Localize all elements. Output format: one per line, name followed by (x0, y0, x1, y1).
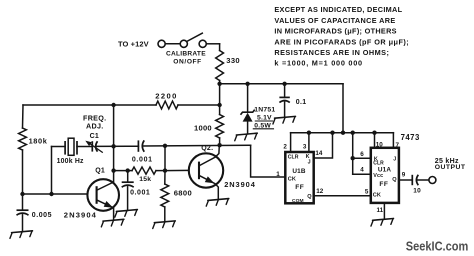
label 6800 (174, 189, 193, 198)
capacitor 0.001 (series) (138, 140, 144, 151)
pin label 3 (303, 144, 307, 151)
switch S1 terminal 1 (158, 40, 165, 47)
wire (51, 147, 53, 195)
svg-text:COM: COM (292, 198, 304, 204)
label 1N751 5.1V 0.5W (253, 106, 275, 129)
svg-text:9: 9 (402, 171, 406, 178)
transistor Q1 2N3904 (87, 179, 119, 211)
pin label 7 (396, 142, 400, 149)
wire pin 1 (CK) (251, 145, 286, 177)
wire pin 14 (314, 133, 333, 158)
node (163, 144, 167, 148)
label 0.001 (130, 190, 150, 197)
node (217, 103, 221, 107)
wire (219, 138, 221, 145)
wire (22, 150, 24, 194)
switch S1 blade (187, 33, 202, 41)
wire (165, 43, 180, 45)
svg-text:0.001: 0.001 (130, 190, 150, 197)
svg-text:4: 4 (360, 167, 364, 174)
label 10 (413, 188, 421, 195)
wire IC supply bus (291, 132, 394, 134)
node (341, 131, 345, 135)
node (111, 103, 115, 107)
wire (164, 207, 166, 222)
capacitor 0.001 (shunt) (122, 182, 134, 187)
label TO +12V (118, 39, 149, 48)
wire (22, 194, 24, 210)
switch S1 terminal 2 (180, 40, 187, 47)
switch S1 terminal 3 (199, 40, 206, 47)
svg-text:0.001: 0.001 (132, 156, 153, 163)
ground (9, 231, 33, 239)
capacitor C1 (variable) (85, 141, 103, 153)
svg-text:IN MICROFARADS (μF); OTHERS: IN MICROFARADS (μF); OTHERS (274, 27, 396, 36)
node (49, 192, 53, 196)
wire (52, 146, 66, 148)
wire (164, 171, 166, 184)
label C1 (90, 133, 99, 140)
op-amp U1B box (285, 152, 313, 204)
pin label 11 (377, 207, 384, 214)
wire (22, 215, 24, 232)
wire pin 7 (392, 133, 394, 148)
ground (101, 219, 125, 227)
wire (128, 170, 132, 172)
watermark SeekIC.com (406, 239, 469, 254)
wire Q2 base (165, 169, 189, 171)
svg-text:RESISTANCES ARE IN OHMS;: RESISTANCES ARE IN OHMS; (274, 48, 389, 57)
wire (417, 179, 428, 181)
svg-text:SeekIC.com: SeekIC.com (406, 239, 469, 254)
svg-text:1N751: 1N751 (254, 106, 275, 113)
wire pin 10 (374, 133, 376, 148)
node (126, 168, 130, 172)
label 0.1 (296, 99, 307, 106)
wire (127, 171, 129, 183)
pin label 1 (276, 171, 280, 178)
pin label 10 (376, 142, 384, 149)
wire pin 3 (308, 133, 310, 152)
node (163, 168, 167, 172)
svg-text:CK: CK (288, 177, 296, 183)
wire pin 2 (290, 133, 292, 152)
wire (156, 170, 165, 172)
wire pin 6 (353, 157, 371, 159)
label 100k Hz (57, 158, 84, 165)
node (111, 168, 115, 172)
label Q1 (95, 168, 105, 175)
node (20, 192, 24, 196)
svg-text:k =1000, M=1 000 000: k =1000, M=1 000 000 (274, 59, 362, 68)
svg-text:15k: 15k (139, 176, 151, 183)
label 180k (29, 137, 48, 146)
svg-text:OUTPUT: OUTPUT (435, 164, 466, 171)
svg-text:ADJ.: ADJ. (86, 122, 104, 131)
op-amp U1A box (371, 148, 399, 203)
label 25 kHz OUTPUT (435, 158, 466, 171)
wire (284, 102, 286, 117)
resistor 330 (216, 51, 224, 81)
wire (114, 170, 128, 172)
wire (113, 208, 115, 220)
label 0.001 (132, 156, 153, 163)
label 0.005 (32, 212, 52, 219)
pin label 4 (360, 167, 364, 174)
capacitor 0.1 (279, 97, 289, 102)
svg-text:12: 12 (316, 188, 324, 195)
label 2N3904 (Q2) (224, 180, 256, 189)
note text block (274, 5, 409, 67)
label 330 (226, 56, 240, 65)
ground (234, 133, 258, 141)
wire pin 9 output (399, 179, 412, 181)
svg-text:2200: 2200 (155, 92, 178, 101)
svg-text:Q: Q (392, 177, 397, 183)
label 2N3904 (Q1) (64, 210, 97, 219)
svg-text:10: 10 (413, 188, 421, 195)
svg-text:14: 14 (315, 150, 323, 157)
ground (206, 199, 230, 207)
svg-text:0.1: 0.1 (296, 99, 307, 106)
svg-text:FF: FF (295, 184, 304, 191)
svg-text:ARE IN PICOFARADS (pF OR μμF);: ARE IN PICOFARADS (pF OR μμF); (274, 37, 409, 46)
resistor 2200 (156, 101, 178, 109)
resistor 6800 (161, 184, 169, 207)
transistor Q2 2N3904 (189, 146, 223, 200)
svg-text:Vcc: Vcc (373, 173, 383, 179)
wire (113, 105, 115, 146)
wire (23, 104, 156, 106)
svg-text:CLR: CLR (288, 155, 299, 161)
pin label 6 (360, 151, 364, 158)
ground (272, 116, 296, 124)
wire Q1 base line (23, 193, 88, 195)
label 2200 (155, 92, 178, 101)
crystal Y1 100k Hz (65, 138, 77, 155)
svg-text:2N3904: 2N3904 (64, 210, 97, 219)
svg-text:11: 11 (377, 207, 384, 214)
node (307, 131, 311, 135)
pin label 5 (365, 188, 369, 195)
svg-text:5: 5 (365, 188, 369, 195)
svg-text:1000: 1000 (194, 123, 212, 132)
wire pin 12 to pin 5 (314, 195, 371, 197)
ground (114, 210, 138, 218)
svg-text:J: J (393, 156, 396, 162)
resistor 15k (132, 167, 156, 174)
wire pin 6/4 feed (352, 133, 354, 175)
svg-text:TO +12V: TO +12V (118, 39, 149, 48)
ground (370, 218, 394, 226)
wire (207, 44, 220, 51)
wire pin 4 (353, 173, 371, 175)
wire (22, 105, 25, 128)
label 15k (139, 176, 151, 183)
svg-text:100k Hz: 100k Hz (57, 158, 84, 165)
svg-text:3: 3 (303, 144, 307, 151)
pin label 12 (316, 188, 324, 195)
wire (219, 81, 221, 115)
svg-text:2: 2 (283, 144, 287, 151)
ground (152, 221, 176, 229)
zener diode 1N751 (241, 110, 255, 122)
capacitor 10 (output) (412, 175, 418, 185)
resistor 1000 (216, 115, 224, 139)
node (351, 156, 355, 160)
label 7473 (401, 133, 420, 142)
wire (127, 187, 129, 211)
svg-text:Q1: Q1 (95, 168, 105, 175)
svg-text:1: 1 (276, 171, 280, 178)
svg-text:CK: CK (373, 192, 381, 198)
node (330, 131, 334, 135)
wire (284, 84, 286, 98)
label 1000 (194, 123, 212, 132)
svg-text:FF: FF (379, 181, 388, 188)
node: Q2 collector junction (217, 143, 221, 147)
svg-text:0.005: 0.005 (32, 212, 52, 219)
svg-text:ON/OFF: ON/OFF (173, 58, 202, 65)
node (282, 82, 286, 86)
node: +V rail junction (217, 82, 221, 86)
label CALIBRATE ON/OFF (166, 51, 206, 66)
wire (178, 104, 220, 106)
node (245, 82, 249, 86)
wire feedback line (143, 144, 251, 147)
resistor 180k (19, 128, 27, 150)
svg-text:VALUES OF CAPACITANCE ARE: VALUES OF CAPACITANCE ARE (274, 16, 395, 25)
wire (342, 84, 344, 133)
wire (77, 146, 92, 148)
svg-text:C1: C1 (90, 133, 99, 140)
pin label 14 (315, 150, 323, 157)
svg-text:7473: 7473 (401, 133, 420, 142)
svg-text:CALIBRATE: CALIBRATE (166, 51, 206, 58)
svg-text:6: 6 (360, 151, 364, 158)
svg-text:U1B: U1B (292, 168, 305, 175)
wire (247, 84, 249, 112)
node (351, 131, 355, 135)
wire (96, 145, 138, 147)
svg-text:180k: 180k (29, 137, 48, 146)
wire (247, 122, 249, 134)
svg-text:330: 330 (226, 56, 240, 65)
pin label 2 (283, 144, 287, 151)
svg-text:Q2.: Q2. (201, 145, 213, 152)
wire riser to feedback (164, 146, 166, 171)
node (111, 144, 115, 148)
output terminal (429, 177, 436, 184)
wire pin 11 (383, 203, 385, 219)
svg-text:6800: 6800 (174, 189, 193, 198)
svg-text:J: J (308, 159, 311, 165)
wire +V rail (220, 83, 343, 85)
svg-text:EXCEPT AS INDICATED, DECIMAL: EXCEPT AS INDICATED, DECIMAL (274, 5, 402, 14)
svg-text:Q: Q (307, 194, 312, 200)
wire Q1 collector riser (113, 146, 115, 182)
pin label 9 (402, 171, 406, 178)
node (372, 131, 376, 135)
label Q2. (201, 145, 213, 152)
svg-text:2N3904: 2N3904 (224, 180, 256, 189)
capacitor 0.005 (17, 210, 29, 215)
label FREQ. ADJ. (83, 114, 106, 131)
